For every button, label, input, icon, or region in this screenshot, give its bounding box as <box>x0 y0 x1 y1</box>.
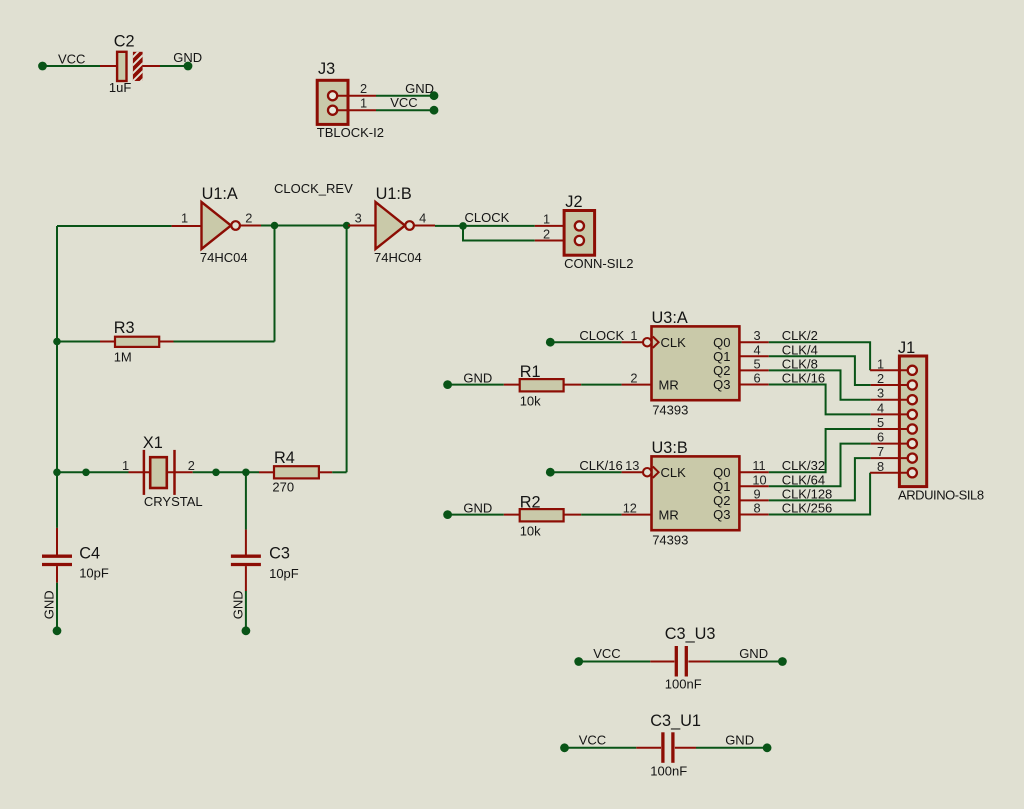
capacitor C3_U1 <box>636 712 701 779</box>
svg-text:U3:A: U3:A <box>652 309 688 327</box>
counter U3:A 74393 <box>643 309 739 417</box>
svg-text:1: 1 <box>181 211 188 226</box>
svg-text:1: 1 <box>360 96 367 111</box>
resistor R2 <box>504 493 581 538</box>
svg-text:C3: C3 <box>269 545 290 563</box>
resistor R4 <box>259 449 332 494</box>
wire R3 right to vertical node <box>174 341 275 343</box>
connector J3 TBLOCK-I2 <box>317 60 384 140</box>
GND terminal (R2) <box>443 501 492 519</box>
svg-text:GND: GND <box>405 81 434 96</box>
wire GND to R2 <box>448 514 504 516</box>
svg-text:10pF: 10pF <box>269 566 299 581</box>
pin 13 of U3:B <box>622 458 643 473</box>
GND terminal (R1) <box>443 371 492 389</box>
svg-text:Q0: Q0 <box>713 465 730 480</box>
svg-text:1: 1 <box>877 356 884 371</box>
wire R2 to U3:B MR <box>581 514 621 516</box>
svg-text:J1: J1 <box>898 339 915 357</box>
svg-text:9: 9 <box>754 486 761 501</box>
wire node to R3 right (vertical) <box>274 226 276 342</box>
svg-text:Q3: Q3 <box>713 507 730 522</box>
svg-text:4: 4 <box>754 342 761 357</box>
net CLK/32 wire to J1 pin5 <box>769 429 871 473</box>
pin 10 of U3:B (Q1) <box>739 472 768 487</box>
svg-text:X1: X1 <box>143 434 163 452</box>
pin 2 of J3 <box>338 81 377 96</box>
svg-text:10k: 10k <box>520 394 541 409</box>
wire CLOCK down and right to J2 pin2 <box>463 226 535 241</box>
svg-text:10pF: 10pF <box>79 566 109 581</box>
wire C3_U3 to GND <box>710 661 782 663</box>
pin 6 of U3:A (Q3) <box>739 371 768 386</box>
wire to R3 left <box>57 341 100 343</box>
svg-text:MR: MR <box>659 507 679 522</box>
wire U1:B out to CLOCK node <box>435 225 463 227</box>
net CLK/256 wire to J1 pin8 <box>769 473 870 516</box>
svg-text:CLK/8: CLK/8 <box>782 356 818 371</box>
svg-text:1: 1 <box>543 211 550 226</box>
pin 11 of U3:B (Q0) <box>739 458 768 473</box>
svg-text:74393: 74393 <box>652 402 688 417</box>
pin 5 of U3:A (Q2) <box>739 356 768 371</box>
svg-text:2: 2 <box>188 458 195 473</box>
svg-text:8: 8 <box>877 459 884 474</box>
pin 7 of J1 <box>871 444 907 459</box>
svg-text:Q2: Q2 <box>713 363 730 378</box>
VCC terminal (C2 left) <box>38 52 85 71</box>
capacitor C3 <box>231 472 299 591</box>
svg-text:R4: R4 <box>274 449 295 467</box>
wire C3 to GND <box>245 591 247 631</box>
capacitor C2 <box>100 33 160 96</box>
svg-text:CLK/2: CLK/2 <box>782 328 818 343</box>
pin 6 of J1 <box>871 430 907 445</box>
resistor R1 <box>504 363 581 409</box>
svg-text:74393: 74393 <box>652 532 688 547</box>
VCC terminal (C3_U3) <box>574 646 620 666</box>
pin 3 of J1 <box>871 386 907 401</box>
op-amp U1:A 74HC04 inverter <box>172 185 261 265</box>
wire feedback top (to U1:A input) <box>57 225 172 227</box>
svg-text:U1:B: U1:B <box>376 185 412 203</box>
svg-text:GND: GND <box>463 501 492 516</box>
svg-text:C2: C2 <box>114 33 135 51</box>
net CLK/64 wire to J1 pin6 <box>769 444 871 488</box>
svg-text:CLK/16: CLK/16 <box>782 371 825 386</box>
svg-text:CLOCK: CLOCK <box>465 210 510 225</box>
svg-text:VCC: VCC <box>390 95 417 110</box>
svg-text:6: 6 <box>877 430 884 445</box>
svg-text:CLK/128: CLK/128 <box>782 486 833 501</box>
pin 1 of J3 <box>338 96 377 111</box>
VCC terminal (C3_U1) <box>560 733 606 753</box>
wire CLOCK to J2 pin1 <box>463 225 535 227</box>
svg-text:GND: GND <box>739 646 768 661</box>
svg-text:1uF: 1uF <box>109 80 131 95</box>
wire VCC to C3_U3 <box>579 661 651 663</box>
capacitor C4 <box>42 472 109 582</box>
svg-text:CLK/64: CLK/64 <box>782 472 825 487</box>
svg-text:CLK/32: CLK/32 <box>782 458 825 473</box>
svg-text:U3:B: U3:B <box>652 439 688 457</box>
node R3 left junction <box>53 338 61 346</box>
wire bottom row <box>57 471 129 473</box>
pin 8 of U3:B (Q3) <box>739 501 768 516</box>
node CLOCK junction <box>459 210 509 230</box>
net CLK/2 wire to J1 pin1 <box>769 328 870 370</box>
GND terminal (C2 right) <box>173 50 202 70</box>
svg-text:10k: 10k <box>520 524 541 539</box>
svg-text:CLK/256: CLK/256 <box>782 501 833 516</box>
svg-text:2: 2 <box>630 371 637 386</box>
svg-text:C3_U1: C3_U1 <box>650 712 701 730</box>
capacitor C3_U3 <box>650 625 715 692</box>
node bottom-left junction <box>53 469 61 477</box>
wire C2 to GND <box>160 65 188 67</box>
svg-text:CLOCK: CLOCK <box>579 328 624 343</box>
svg-text:CLK/4: CLK/4 <box>782 342 818 357</box>
svg-text:J2: J2 <box>565 193 582 211</box>
node junction 2 (U1:B input) <box>343 222 351 230</box>
node CLK/16 terminal (U3:B) <box>546 458 623 477</box>
wire GND to R1 <box>448 384 504 386</box>
svg-text:C4: C4 <box>79 545 100 563</box>
svg-text:C3_U3: C3_U3 <box>665 625 716 643</box>
pin 2 of J1 <box>871 371 907 386</box>
wire U1:A out to node <box>261 225 347 227</box>
wire CLOCK to U3:A CLK <box>550 341 621 343</box>
svg-text:12: 12 <box>623 501 637 516</box>
svg-text:Q2: Q2 <box>713 493 730 508</box>
svg-text:TBLOCK-I2: TBLOCK-I2 <box>317 125 384 140</box>
svg-text:CLK: CLK <box>661 335 687 350</box>
svg-text:GND: GND <box>230 590 245 619</box>
svg-text:10: 10 <box>752 472 766 487</box>
GND terminal (C3) <box>230 590 250 635</box>
wire C3_U1 to GND <box>696 747 767 749</box>
svg-text:3: 3 <box>754 328 761 343</box>
svg-text:7: 7 <box>877 444 884 459</box>
wire R4 right to vertical <box>332 471 346 473</box>
wire VCC to C2 <box>43 65 101 67</box>
svg-text:2: 2 <box>543 227 550 242</box>
wire feedback left vertical <box>56 226 58 472</box>
pin 1 of J1 <box>870 356 907 371</box>
svg-text:11: 11 <box>752 458 765 473</box>
pin 1 of U3:A <box>622 328 643 343</box>
svg-text:GND: GND <box>463 371 492 386</box>
GND terminal (C3_U3) <box>739 646 787 666</box>
node CLOCK terminal (U3:A) <box>546 328 625 347</box>
GND terminal (C3_U1) <box>725 733 771 753</box>
pin 4 of U3:A (Q1) <box>739 342 768 357</box>
svg-text:GND: GND <box>173 50 202 65</box>
pin 3 of U3:A (Q0) <box>739 328 768 343</box>
svg-text:CLOCK_REV: CLOCK_REV <box>274 181 353 196</box>
svg-text:VCC: VCC <box>58 52 85 67</box>
svg-text:2: 2 <box>360 81 367 96</box>
net CLK/128 wire to J1 pin7 <box>769 458 871 501</box>
svg-text:100nF: 100nF <box>650 764 687 779</box>
svg-text:2: 2 <box>245 211 252 226</box>
svg-text:MR: MR <box>659 377 679 392</box>
pin 4 of J1 <box>871 400 907 415</box>
svg-text:CLK: CLK <box>661 465 687 480</box>
wire R1 to U3:A MR <box>581 384 621 386</box>
svg-text:4: 4 <box>419 211 426 226</box>
svg-text:6: 6 <box>754 371 761 386</box>
svg-text:R3: R3 <box>114 319 135 337</box>
svg-text:Q0: Q0 <box>713 335 730 350</box>
svg-text:1M: 1M <box>114 349 132 364</box>
wire J3 pin2 to GND <box>376 95 434 97</box>
wire C4 to GND <box>56 583 58 631</box>
pin 9 of U3:B (Q2) <box>739 486 768 501</box>
svg-text:3: 3 <box>355 211 362 226</box>
svg-text:CRYSTAL: CRYSTAL <box>144 494 203 509</box>
svg-text:J3: J3 <box>318 60 335 78</box>
pin 2 of U3:A <box>622 371 652 386</box>
svg-text:CLK/16: CLK/16 <box>579 458 622 473</box>
net CLK/4 wire to J1 pin2 <box>769 342 871 385</box>
pin 5 of J1 <box>871 415 907 430</box>
svg-text:5: 5 <box>877 415 884 430</box>
svg-text:100nF: 100nF <box>665 677 702 692</box>
svg-text:4: 4 <box>877 400 884 415</box>
svg-text:VCC: VCC <box>593 646 620 661</box>
svg-text:Q1: Q1 <box>713 349 730 364</box>
pin 12 of U3:B <box>622 501 652 516</box>
node CLOCK_REV junction 1 <box>271 181 353 229</box>
wire CLK/16 to U3:B CLK <box>550 471 621 473</box>
svg-text:U1:A: U1:A <box>202 185 238 203</box>
wire X1 to C3 node <box>193 471 259 473</box>
svg-text:8: 8 <box>754 501 761 516</box>
net CLK/8 wire to J1 pin3 <box>769 356 871 399</box>
svg-text:1: 1 <box>122 458 129 473</box>
svg-text:2: 2 <box>877 371 884 386</box>
svg-text:5: 5 <box>754 356 761 371</box>
svg-text:Q1: Q1 <box>713 479 730 494</box>
svg-text:74HC04: 74HC04 <box>374 250 422 265</box>
counter U3:B 74393 <box>643 439 739 547</box>
svg-text:Q3: Q3 <box>713 377 730 392</box>
svg-text:ARDUINO-SIL8: ARDUINO-SIL8 <box>898 488 984 503</box>
svg-text:1: 1 <box>630 328 637 343</box>
node junction mid <box>212 469 220 477</box>
node bottom junction 2 <box>82 469 90 477</box>
svg-text:13: 13 <box>625 458 639 473</box>
op-amp U1:B 74HC04 inverter <box>348 185 435 265</box>
svg-text:GND: GND <box>42 590 57 619</box>
VCC terminal (J3) <box>390 95 438 115</box>
node C3 tap junction <box>242 469 250 477</box>
svg-text:R2: R2 <box>520 493 541 511</box>
resistor R3 <box>100 319 174 364</box>
wire VCC to C3_U1 <box>565 747 637 749</box>
svg-text:270: 270 <box>272 479 294 494</box>
GND terminal (J3) <box>405 81 438 100</box>
crystal X1 <box>122 434 203 509</box>
pin 8 of J1 <box>870 459 907 474</box>
connector J1 ARDUINO-SIL8 <box>898 339 984 503</box>
svg-text:R1: R1 <box>520 363 541 381</box>
wire junction2 down to R4 right <box>346 226 348 473</box>
svg-text:CONN-SIL2: CONN-SIL2 <box>564 256 633 271</box>
svg-text:3: 3 <box>877 386 884 401</box>
GND terminal (C4) <box>42 590 62 635</box>
svg-text:74HC04: 74HC04 <box>200 250 248 265</box>
svg-text:VCC: VCC <box>579 733 606 748</box>
svg-text:GND: GND <box>725 733 754 748</box>
net CLK/16 wire to J1 pin4 <box>769 371 871 415</box>
wire J3 pin1 to VCC <box>376 109 434 111</box>
connector J2 CONN-SIL2 <box>535 193 634 271</box>
